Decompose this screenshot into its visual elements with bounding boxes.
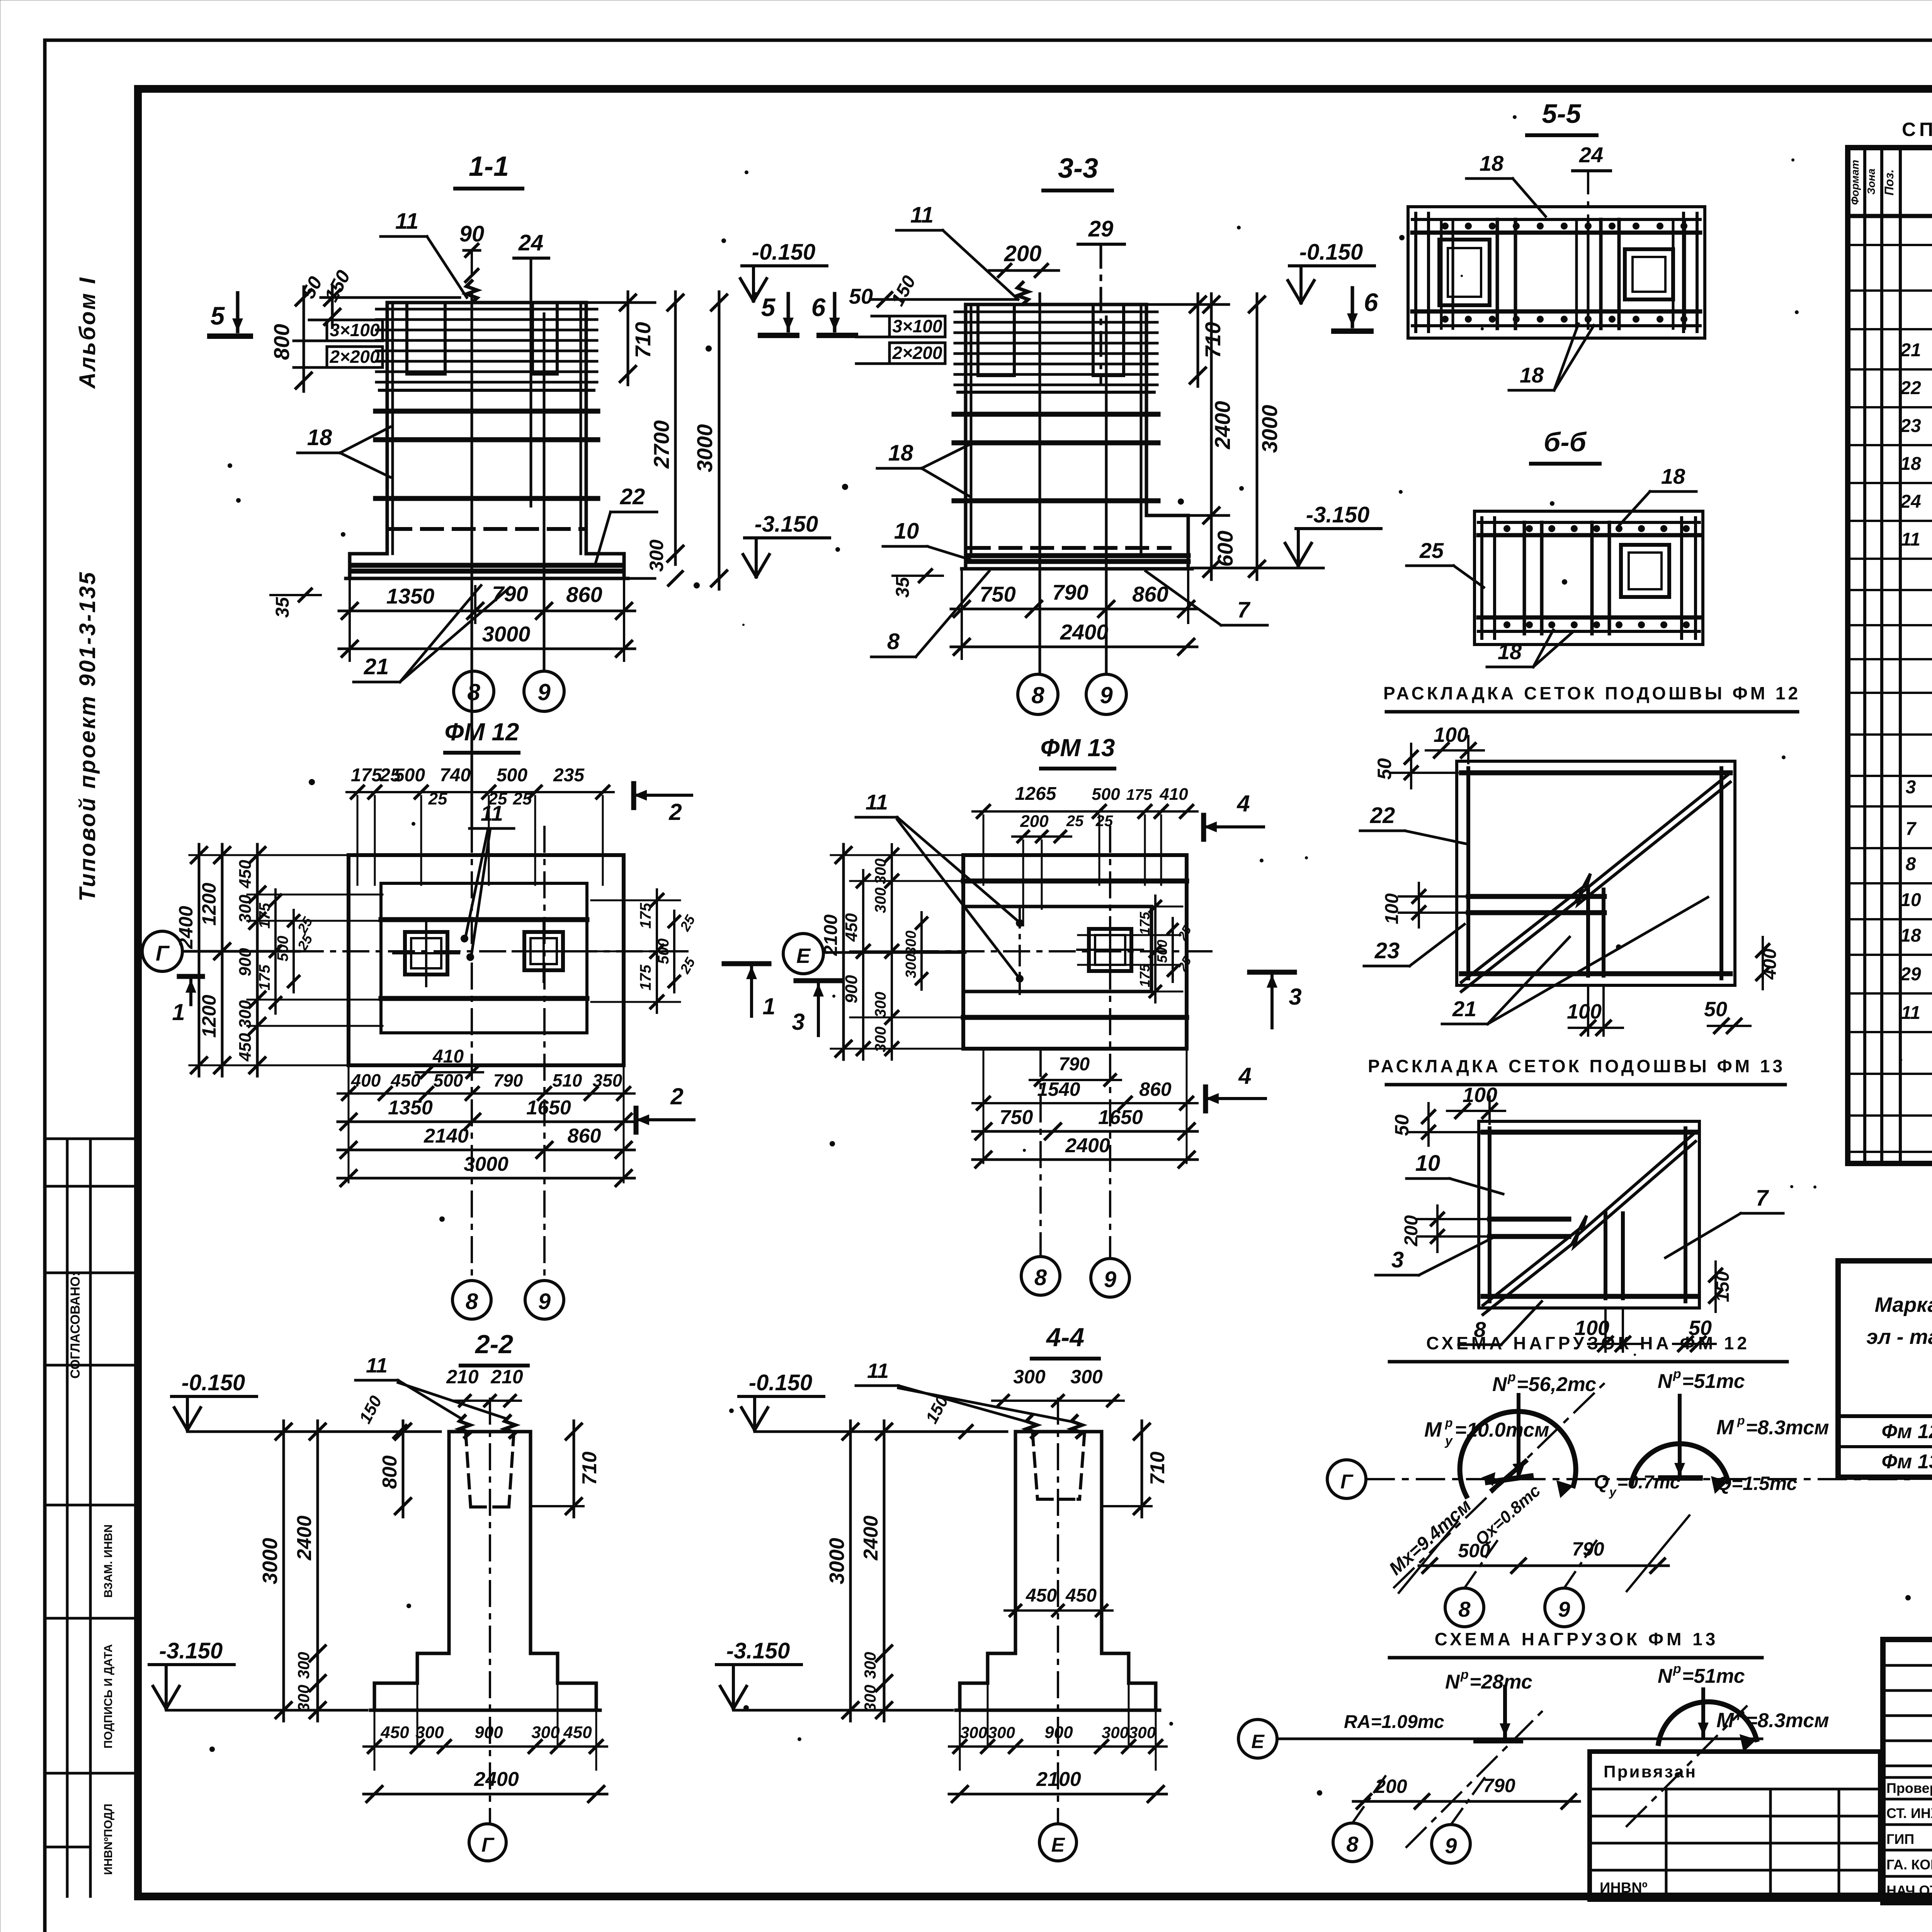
svg-text:11: 11 bbox=[910, 202, 934, 228]
svg-text:24: 24 bbox=[1579, 143, 1603, 167]
svg-text:1650: 1650 bbox=[1098, 1106, 1143, 1129]
svg-text:3: 3 bbox=[792, 1009, 804, 1035]
svg-text:СТ. ИНЖ.: СТ. ИНЖ. bbox=[1886, 1805, 1932, 1821]
svg-text:-0.150: -0.150 bbox=[749, 1370, 812, 1395]
svg-text:1200: 1200 bbox=[198, 995, 220, 1037]
svg-text:29: 29 bbox=[1088, 216, 1114, 241]
svg-text:710: 710 bbox=[631, 322, 655, 358]
svg-text:7: 7 bbox=[1237, 597, 1251, 622]
svg-text:5-5: 5-5 bbox=[1542, 99, 1581, 129]
svg-text:500: 500 bbox=[497, 765, 527, 786]
svg-text:р: р bbox=[1507, 1370, 1516, 1384]
svg-text:M: M bbox=[1424, 1418, 1442, 1441]
svg-text:50: 50 bbox=[1374, 758, 1395, 780]
svg-text:790: 790 bbox=[1052, 580, 1088, 604]
svg-text:б-б: б-б bbox=[1544, 427, 1587, 457]
svg-text:M: M bbox=[1716, 1416, 1734, 1439]
svg-text:9: 9 bbox=[538, 1289, 551, 1314]
svg-text:у: у bbox=[1609, 1485, 1617, 1499]
svg-text:3000: 3000 bbox=[464, 1153, 509, 1175]
svg-text:450: 450 bbox=[380, 1723, 409, 1742]
svg-text:24: 24 bbox=[518, 230, 544, 255]
svg-text:1350: 1350 bbox=[388, 1097, 433, 1119]
svg-text:Формат: Формат bbox=[1849, 160, 1861, 205]
svg-text:3: 3 bbox=[1391, 1247, 1404, 1272]
svg-text:5: 5 bbox=[211, 301, 225, 330]
svg-text:100: 100 bbox=[1382, 893, 1402, 924]
svg-text:210: 210 bbox=[490, 1366, 523, 1388]
svg-text:3000: 3000 bbox=[482, 622, 531, 646]
svg-text:Типовой проект 901-3-135: Типовой проект 901-3-135 bbox=[75, 571, 100, 901]
svg-text:Qх=0.8тс: Qх=0.8тс bbox=[1471, 1481, 1544, 1549]
svg-text:500: 500 bbox=[1458, 1540, 1490, 1561]
svg-text:18: 18 bbox=[1900, 925, 1921, 946]
svg-text:2400: 2400 bbox=[293, 1515, 316, 1561]
svg-text:=8.3тсм: =8.3тсм bbox=[1746, 1709, 1829, 1732]
svg-text:18: 18 bbox=[1520, 363, 1544, 387]
svg-text:450: 450 bbox=[563, 1723, 592, 1742]
svg-text:р: р bbox=[1737, 1413, 1745, 1427]
svg-text:Марка: Марка bbox=[1875, 1293, 1932, 1316]
svg-text:90: 90 bbox=[459, 221, 485, 247]
svg-text:790: 790 bbox=[1483, 1775, 1515, 1796]
svg-text:=28тс: =28тс bbox=[1469, 1671, 1532, 1693]
svg-text:510: 510 bbox=[553, 1070, 582, 1090]
svg-text:300: 300 bbox=[415, 1723, 444, 1742]
svg-text:1: 1 bbox=[172, 999, 185, 1025]
svg-text:10: 10 bbox=[1415, 1151, 1440, 1176]
svg-text:8: 8 bbox=[887, 629, 900, 654]
svg-text:Е: Е bbox=[796, 944, 811, 968]
svg-text:6: 6 bbox=[811, 293, 826, 321]
svg-text:450: 450 bbox=[236, 1033, 255, 1062]
svg-text:860: 860 bbox=[566, 582, 602, 607]
svg-text:ГА. КОНСТР: ГА. КОНСТР bbox=[1886, 1857, 1932, 1872]
svg-text:25: 25 bbox=[677, 954, 699, 976]
svg-text:3000: 3000 bbox=[825, 1538, 849, 1584]
svg-text:N: N bbox=[1492, 1373, 1507, 1396]
svg-text:500: 500 bbox=[434, 1070, 463, 1090]
svg-text:300: 300 bbox=[531, 1723, 560, 1742]
svg-text:=8.3тсм: =8.3тсм bbox=[1746, 1417, 1829, 1439]
svg-text:175: 175 bbox=[351, 765, 382, 786]
svg-text:ФМ 12: ФМ 12 bbox=[444, 718, 519, 746]
svg-text:3-3: 3-3 bbox=[1058, 153, 1098, 184]
svg-text:300: 300 bbox=[903, 954, 919, 978]
svg-text:300: 300 bbox=[872, 992, 889, 1018]
svg-text:Q: Q bbox=[1594, 1471, 1609, 1493]
svg-text:300: 300 bbox=[988, 1723, 1015, 1742]
svg-text:350: 350 bbox=[593, 1070, 622, 1090]
svg-text:ИНВNºПОДЛ: ИНВNºПОДЛ bbox=[102, 1804, 115, 1875]
svg-text:-0.150: -0.150 bbox=[752, 240, 815, 265]
svg-text:300: 300 bbox=[872, 888, 889, 913]
svg-text:11: 11 bbox=[1901, 1003, 1920, 1023]
svg-text:750: 750 bbox=[980, 582, 1015, 606]
svg-text:Q=1.5тс: Q=1.5тс bbox=[1716, 1473, 1797, 1494]
svg-text:410: 410 bbox=[432, 1046, 464, 1067]
svg-text:300: 300 bbox=[294, 1652, 313, 1679]
svg-text:175: 175 bbox=[637, 903, 654, 929]
svg-text:3000: 3000 bbox=[1257, 405, 1282, 453]
svg-text:Проверил: Проверил bbox=[1886, 1780, 1932, 1796]
svg-text:р: р bbox=[1673, 1662, 1681, 1676]
svg-text:25: 25 bbox=[488, 789, 507, 808]
svg-text:300: 300 bbox=[646, 539, 667, 572]
svg-text:-3.150: -3.150 bbox=[1306, 502, 1369, 527]
svg-text:410: 410 bbox=[1159, 785, 1188, 804]
svg-text:300: 300 bbox=[236, 895, 255, 923]
svg-text:8: 8 bbox=[1906, 854, 1916, 874]
svg-text:175: 175 bbox=[1137, 912, 1153, 935]
svg-text:2×200: 2×200 bbox=[892, 343, 942, 363]
svg-text:860: 860 bbox=[568, 1125, 601, 1147]
svg-text:200: 200 bbox=[1020, 812, 1049, 831]
svg-text:800: 800 bbox=[379, 1456, 401, 1489]
svg-text:710: 710 bbox=[1146, 1452, 1169, 1485]
svg-text:800: 800 bbox=[269, 324, 294, 360]
svg-text:=51тс: =51тс bbox=[1682, 1665, 1745, 1687]
svg-text:8: 8 bbox=[466, 1289, 478, 1314]
svg-text:790: 790 bbox=[492, 582, 528, 606]
svg-text:740: 740 bbox=[440, 765, 471, 786]
svg-text:450: 450 bbox=[1065, 1585, 1097, 1606]
svg-text:9: 9 bbox=[1100, 682, 1113, 708]
svg-text:18: 18 bbox=[1900, 454, 1921, 474]
svg-text:210: 210 bbox=[446, 1366, 479, 1388]
svg-text:-3.150: -3.150 bbox=[755, 512, 818, 537]
svg-text:4: 4 bbox=[1236, 791, 1250, 816]
svg-text:2: 2 bbox=[668, 799, 682, 825]
svg-text:400: 400 bbox=[351, 1070, 381, 1090]
svg-text:=10.0тсм: =10.0тсм bbox=[1455, 1419, 1549, 1441]
svg-text:300: 300 bbox=[960, 1723, 987, 1742]
svg-text:2700: 2700 bbox=[649, 420, 673, 469]
svg-text:11: 11 bbox=[1901, 529, 1920, 550]
svg-text:175: 175 bbox=[1126, 786, 1152, 803]
svg-text:3000: 3000 bbox=[692, 424, 717, 473]
svg-text:10: 10 bbox=[894, 519, 919, 544]
svg-text:150: 150 bbox=[320, 267, 355, 305]
svg-text:N: N bbox=[1658, 1665, 1673, 1687]
svg-text:500: 500 bbox=[274, 936, 291, 962]
svg-text:1200: 1200 bbox=[198, 883, 220, 925]
svg-text:2: 2 bbox=[670, 1083, 683, 1109]
svg-text:НАЧ.ОТД.: НАЧ.ОТД. bbox=[1886, 1883, 1932, 1898]
svg-text:9: 9 bbox=[1445, 1833, 1457, 1858]
svg-text:300: 300 bbox=[1129, 1723, 1156, 1742]
svg-text:ВЗАМ. ИНВN: ВЗАМ. ИНВN bbox=[102, 1524, 115, 1598]
svg-text:300: 300 bbox=[1013, 1366, 1046, 1388]
svg-text:25: 25 bbox=[1175, 954, 1194, 974]
svg-text:8: 8 bbox=[1346, 1832, 1359, 1856]
svg-text:СПЕЦИФИКАЦИЯ ЭЛЕМЕНТОВ МОНОЛ: СПЕЦИФИКАЦИЯ ЭЛЕМЕНТОВ МОНОЛИТНОЙ КОНСТР… bbox=[1902, 118, 1932, 140]
svg-text:10: 10 bbox=[1900, 890, 1921, 910]
svg-text:СОГЛАСОВАНО:: СОГЛАСОВАНО: bbox=[68, 1272, 83, 1379]
svg-text:235: 235 bbox=[553, 765, 585, 786]
svg-text:-3.150: -3.150 bbox=[159, 1638, 223, 1663]
svg-text:9: 9 bbox=[1558, 1597, 1570, 1621]
svg-text:N: N bbox=[1658, 1370, 1673, 1393]
svg-text:900: 900 bbox=[842, 975, 861, 1003]
svg-text:23: 23 bbox=[1374, 938, 1400, 963]
svg-text:22: 22 bbox=[620, 484, 645, 509]
svg-text:175: 175 bbox=[637, 964, 654, 990]
svg-text:2400: 2400 bbox=[1060, 620, 1109, 644]
svg-text:4: 4 bbox=[1238, 1063, 1251, 1089]
svg-text:860: 860 bbox=[1139, 1078, 1172, 1100]
svg-text:СХЕМА НАГРУЗОК НА ФМ 12: СХЕМА НАГРУЗОК НА ФМ 12 bbox=[1426, 1333, 1750, 1353]
svg-text:2100: 2100 bbox=[1036, 1768, 1081, 1791]
svg-text:25: 25 bbox=[1095, 813, 1113, 830]
svg-text:Г: Г bbox=[1340, 1471, 1354, 1493]
svg-text:2400: 2400 bbox=[860, 1515, 882, 1561]
svg-text:ПОДПИСЬ И ДАТА: ПОДПИСЬ И ДАТА bbox=[102, 1644, 115, 1748]
svg-text:2×200: 2×200 bbox=[329, 347, 380, 367]
svg-text:50: 50 bbox=[849, 284, 873, 308]
svg-text:300: 300 bbox=[861, 1652, 879, 1679]
svg-text:25: 25 bbox=[513, 789, 532, 808]
svg-text:450: 450 bbox=[842, 913, 861, 942]
svg-text:3: 3 bbox=[1289, 984, 1301, 1010]
svg-text:450: 450 bbox=[391, 1070, 421, 1090]
svg-text:-0.150: -0.150 bbox=[1299, 240, 1363, 265]
svg-text:100: 100 bbox=[1463, 1083, 1497, 1107]
svg-text:2400: 2400 bbox=[175, 906, 197, 949]
svg-text:5: 5 bbox=[761, 293, 776, 321]
svg-text:150: 150 bbox=[355, 1393, 386, 1427]
svg-text:8: 8 bbox=[1031, 682, 1044, 708]
svg-text:р: р bbox=[1445, 1416, 1453, 1430]
svg-text:450: 450 bbox=[1026, 1585, 1057, 1606]
svg-text:18: 18 bbox=[888, 440, 913, 466]
svg-text:Фм 12: Фм 12 bbox=[1881, 1420, 1932, 1443]
svg-text:р: р bbox=[1460, 1667, 1469, 1682]
svg-text:1650: 1650 bbox=[526, 1097, 571, 1119]
svg-text:500: 500 bbox=[1092, 785, 1120, 804]
svg-text:21: 21 bbox=[364, 654, 389, 679]
svg-text:500: 500 bbox=[1154, 940, 1170, 963]
svg-text:у: у bbox=[1444, 1434, 1453, 1448]
svg-text:450: 450 bbox=[236, 860, 255, 889]
svg-text:24: 24 bbox=[1900, 492, 1921, 512]
svg-text:1-1: 1-1 bbox=[469, 151, 509, 182]
svg-text:8: 8 bbox=[1458, 1597, 1471, 1621]
svg-text:790: 790 bbox=[493, 1070, 523, 1090]
svg-text:3: 3 bbox=[1906, 777, 1916, 798]
svg-text:Поз.: Поз. bbox=[1882, 169, 1896, 196]
svg-text:2100: 2100 bbox=[821, 914, 841, 956]
svg-text:790: 790 bbox=[1059, 1054, 1090, 1075]
svg-text:900: 900 bbox=[1044, 1723, 1073, 1742]
svg-text:р: р bbox=[1673, 1367, 1681, 1381]
svg-text:100: 100 bbox=[1434, 723, 1468, 747]
svg-text:2400: 2400 bbox=[474, 1768, 519, 1791]
svg-text:29: 29 bbox=[1900, 964, 1921, 985]
svg-text:6: 6 bbox=[1364, 288, 1379, 316]
svg-text:Зона: Зона bbox=[1865, 168, 1877, 195]
svg-text:эл - та: эл - та bbox=[1866, 1325, 1932, 1349]
svg-text:1350: 1350 bbox=[386, 584, 435, 608]
svg-text:Г: Г bbox=[481, 1834, 495, 1856]
svg-text:300: 300 bbox=[861, 1685, 879, 1712]
svg-text:18: 18 bbox=[307, 425, 332, 450]
svg-text:=0.7тс: =0.7тс bbox=[1617, 1472, 1680, 1493]
svg-text:8: 8 bbox=[467, 679, 480, 705]
svg-text:35: 35 bbox=[272, 597, 293, 618]
svg-text:2400: 2400 bbox=[1210, 401, 1235, 450]
svg-text:-0.150: -0.150 bbox=[182, 1370, 245, 1395]
svg-text:РАСКЛАДКА СЕТОК ПОДОШВЫ ФМ: РАСКЛАДКА СЕТОК ПОДОШВЫ ФМ 13 bbox=[1368, 1056, 1785, 1076]
svg-text:22: 22 bbox=[1370, 803, 1395, 828]
svg-text:8: 8 bbox=[1034, 1265, 1047, 1290]
svg-text:3×100: 3×100 bbox=[330, 320, 380, 340]
svg-text:11: 11 bbox=[366, 1354, 388, 1377]
svg-text:25: 25 bbox=[1419, 538, 1444, 563]
svg-text:2-2: 2-2 bbox=[474, 1330, 513, 1359]
svg-text:900: 900 bbox=[474, 1723, 503, 1742]
svg-text:7: 7 bbox=[1906, 819, 1917, 839]
svg-text:21: 21 bbox=[1452, 997, 1476, 1021]
svg-text:100: 100 bbox=[1567, 1000, 1602, 1023]
svg-text:2140: 2140 bbox=[423, 1125, 469, 1147]
svg-text:=51тс: =51тс bbox=[1682, 1370, 1745, 1393]
svg-text:Е: Е bbox=[1251, 1731, 1265, 1752]
svg-text:RА=1.09тс: RА=1.09тс bbox=[1344, 1712, 1444, 1732]
svg-text:1265: 1265 bbox=[1015, 784, 1057, 804]
svg-text:175: 175 bbox=[256, 903, 273, 929]
svg-text:175: 175 bbox=[256, 964, 273, 990]
svg-text:50: 50 bbox=[1704, 998, 1727, 1021]
svg-text:300: 300 bbox=[1102, 1723, 1129, 1742]
svg-text:300: 300 bbox=[294, 1685, 313, 1712]
svg-text:9: 9 bbox=[1104, 1267, 1116, 1292]
svg-text:Фм 13: Фм 13 bbox=[1881, 1451, 1932, 1473]
svg-text:ФМ 13: ФМ 13 bbox=[1040, 734, 1115, 762]
svg-text:N: N bbox=[1445, 1671, 1460, 1693]
svg-text:175: 175 bbox=[1137, 964, 1153, 987]
svg-text:3000: 3000 bbox=[259, 1538, 282, 1584]
svg-text:23: 23 bbox=[1900, 416, 1921, 436]
svg-text:=56,2тс: =56,2тс bbox=[1517, 1373, 1596, 1396]
svg-text:1: 1 bbox=[762, 993, 775, 1019]
svg-text:35: 35 bbox=[893, 577, 913, 598]
svg-text:21: 21 bbox=[1900, 340, 1921, 361]
svg-text:790: 790 bbox=[1572, 1538, 1604, 1560]
svg-text:СХЕМА НАГРУЗОК ФМ 13: СХЕМА НАГРУЗОК ФМ 13 bbox=[1435, 1629, 1719, 1649]
svg-text:200: 200 bbox=[1004, 241, 1042, 266]
svg-text:750: 750 bbox=[1000, 1106, 1033, 1129]
svg-text:ГИП: ГИП bbox=[1886, 1831, 1914, 1847]
svg-text:1540: 1540 bbox=[1037, 1078, 1080, 1100]
svg-text:Привязан: Привязан bbox=[1604, 1762, 1697, 1781]
svg-text:860: 860 bbox=[1132, 582, 1168, 606]
svg-text:710: 710 bbox=[578, 1452, 601, 1485]
svg-text:18: 18 bbox=[1661, 464, 1685, 488]
svg-text:3×100: 3×100 bbox=[892, 316, 942, 336]
svg-text:18: 18 bbox=[1480, 151, 1504, 175]
svg-text:25: 25 bbox=[1066, 813, 1084, 830]
svg-text:25: 25 bbox=[428, 789, 447, 808]
svg-text:2400: 2400 bbox=[1065, 1134, 1110, 1157]
svg-text:500: 500 bbox=[394, 765, 425, 786]
svg-text:300: 300 bbox=[236, 1000, 255, 1029]
svg-text:300: 300 bbox=[1070, 1366, 1103, 1388]
svg-text:150: 150 bbox=[887, 272, 920, 310]
svg-text:11: 11 bbox=[867, 1359, 889, 1383]
svg-text:600: 600 bbox=[1213, 531, 1237, 566]
svg-text:7: 7 bbox=[1756, 1185, 1769, 1211]
svg-text:Г: Г bbox=[156, 941, 170, 965]
svg-text:РАСКЛАДКА СЕТОК ПОДОШВЫ ФМ: РАСКЛАДКА СЕТОК ПОДОШВЫ ФМ 12 bbox=[1383, 683, 1801, 703]
svg-text:18: 18 bbox=[1498, 639, 1522, 664]
svg-text:4-4: 4-4 bbox=[1046, 1323, 1084, 1352]
svg-text:22: 22 bbox=[1900, 378, 1921, 398]
svg-text:ИНВNº: ИНВNº bbox=[1600, 1880, 1648, 1896]
svg-text:Е: Е bbox=[1051, 1834, 1065, 1856]
svg-text:11: 11 bbox=[866, 790, 888, 814]
svg-text:9: 9 bbox=[537, 679, 551, 705]
svg-text:Альбом I: Альбом I bbox=[75, 276, 100, 389]
svg-text:-3.150: -3.150 bbox=[726, 1638, 790, 1663]
svg-text:11: 11 bbox=[395, 209, 418, 234]
